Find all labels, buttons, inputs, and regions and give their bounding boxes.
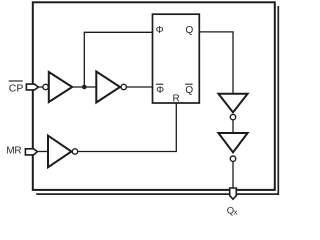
svg-text:MR: MR bbox=[6, 145, 21, 156]
svg-text:Φ: Φ bbox=[156, 85, 164, 96]
svg-text:Q: Q bbox=[185, 85, 193, 96]
svg-text:Q: Q bbox=[186, 25, 194, 36]
svg-text:R: R bbox=[173, 94, 180, 105]
svg-text:x: x bbox=[234, 208, 238, 217]
svg-text:CP: CP bbox=[9, 82, 24, 94]
svg-text:Φ: Φ bbox=[156, 25, 164, 36]
